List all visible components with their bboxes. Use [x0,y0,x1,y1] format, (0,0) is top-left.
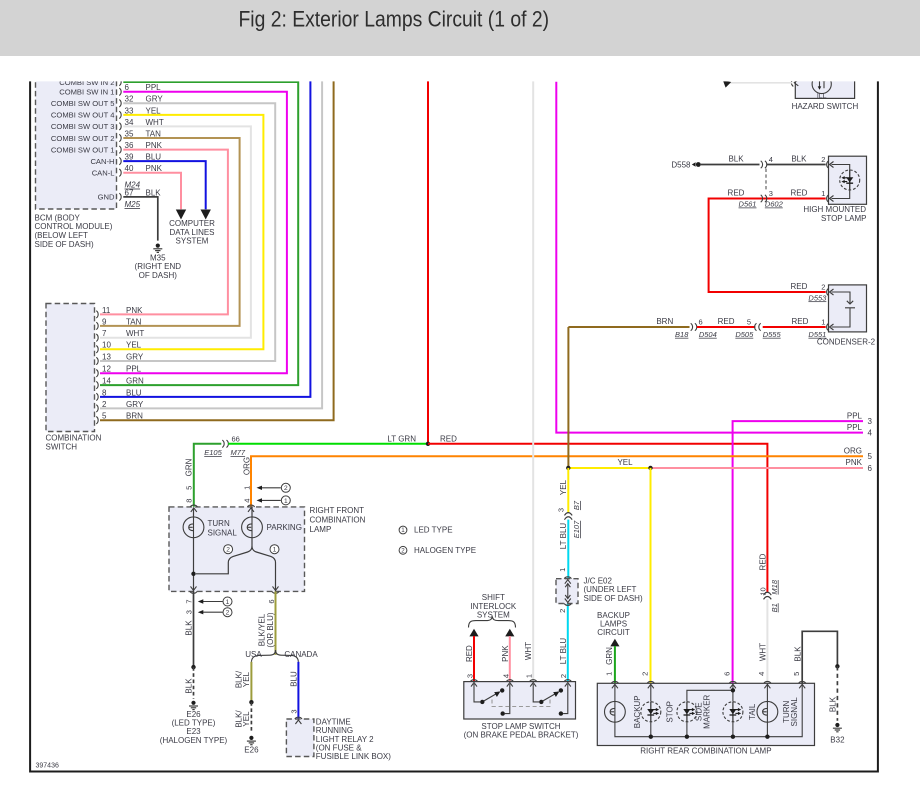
stop lamp switch mechanical link (dashed) [492,700,550,707]
wire WHT from top (off-page) to stop lamp switch pin 1 [532,78,534,682]
hazard switch entry pin [791,79,798,86]
J/C E02 entry pin 1 [564,577,571,584]
junction BLK ground branch [835,664,839,668]
connector D561/D602 pin 4 (BLK row) [761,161,763,168]
turn signal bulb (rear) [757,701,778,722]
svg-text:M24: M24 [125,181,141,190]
svg-text:LT BLU: LT BLU [559,523,568,550]
svg-text:E107: E107 [572,520,581,538]
svg-text:YEL: YEL [242,711,251,727]
legend halogen type [399,546,407,554]
svg-text:1: 1 [401,527,405,534]
svg-text:RIGHT FRONT: RIGHT FRONT [310,506,365,515]
parking bulb [242,517,263,538]
svg-text:RED: RED [465,645,474,662]
wire LT BLU connector E107 to J/C E02 [567,520,569,579]
svg-text:ORG: ORG [844,446,862,455]
svg-text:8: 8 [185,499,194,503]
circled 2 (halogen) branch label [224,545,233,554]
svg-text:CIRCUIT: CIRCUIT [597,628,630,637]
svg-text:SYSTEM: SYSTEM [176,237,209,246]
right rear lamp entry pin 6 [729,681,736,688]
connector B18/D504 pin 6 [691,323,693,330]
shift interlock brace [469,616,516,627]
arrow to shift interlock (RED) [469,629,478,637]
wire WHT BCM to combination switch pin 7 [100,126,251,337]
high mounted stop lamp internal wiring [832,165,850,199]
wire GRN front lamp to connector E105 [194,444,222,507]
arrow to computer data lines system (CAN-L) [176,210,186,220]
svg-text:HALOGEN TYPE: HALOGEN TYPE [414,546,476,555]
svg-text:GRN: GRN [126,377,144,386]
svg-text:SYSTEM: SYSTEM [477,610,510,619]
svg-text:RED: RED [790,282,807,291]
wire BLK dashed to ground B32 [836,666,838,721]
svg-text:RUNNING: RUNNING [316,726,353,735]
svg-text:(RIGHT END: (RIGHT END [135,262,182,271]
lamp exit (parking) pin 6 [272,586,279,593]
wire LT GRN connector M77 to RED junction [228,443,428,445]
svg-text:RED: RED [440,434,457,443]
svg-text:J/C E02: J/C E02 [584,576,613,585]
wire YEL junction down to connector B7 [567,468,569,513]
high mounted stop lamp entry pin 2 [827,161,834,168]
svg-text:STOP: STOP [666,701,675,723]
svg-text:D553: D553 [808,293,827,302]
svg-text:DATA LINES: DATA LINES [169,228,214,237]
wire RED junction to connector M18 [428,444,767,593]
wire GRN right rear lamp pin 1 to backup lamps circuit [614,646,616,683]
stop lamp switch entry pin 1 [530,680,537,687]
svg-text:5: 5 [185,486,194,490]
svg-text:BLK: BLK [185,620,194,636]
svg-text:COMBINATION: COMBINATION [310,515,366,524]
svg-text:HIGH MOUNTED: HIGH MOUNTED [803,205,866,214]
svg-text:PPL: PPL [847,411,863,420]
svg-text:BLK: BLK [728,155,744,164]
tail bulb (LED) [723,702,743,722]
svg-text:3: 3 [185,610,194,614]
arrow off-page (illumination circuit) [723,81,731,88]
svg-text:M77: M77 [231,448,246,457]
svg-text:M25: M25 [125,200,141,209]
wire BLK right rear lamp pin 5 to ground B32 [802,631,837,683]
wire PNK stop lamp switch pin 4 to shift interlock [509,636,511,682]
parking bulb lead [251,508,253,518]
svg-text:2: 2 [821,282,825,291]
svg-text:6: 6 [723,672,732,676]
svg-text:11: 11 [102,306,111,315]
condenser-2 entry pin 1 [827,323,834,330]
svg-text:66: 66 [232,435,240,444]
svg-text:1: 1 [605,672,614,676]
svg-text:MARKER: MARKER [703,694,712,728]
svg-text:4: 4 [868,429,873,438]
wire BLK turn signal to junction [193,591,195,667]
svg-text:SIGNAL: SIGNAL [208,529,238,538]
svg-text:3: 3 [466,674,475,678]
connector D561/D602 housing link (dashed) [765,169,767,192]
svg-text:4: 4 [757,672,766,676]
svg-text:TAIL: TAIL [748,703,757,720]
junction LT GRN / RED [426,442,430,446]
svg-text:(UNDER LEFT: (UNDER LEFT [584,585,637,594]
callout LED pin 7 [201,601,223,603]
svg-text:CONTROL MODULE): CONTROL MODULE) [35,222,113,231]
combination switch pin 7 WHT [96,334,98,341]
svg-text:LT BLU: LT BLU [559,638,568,665]
junction turn signal / parking ground branch [191,572,195,576]
svg-text:TAN: TAN [126,317,142,326]
callout LED pin (parking) [260,499,281,501]
svg-text:1: 1 [273,547,277,554]
svg-text:2: 2 [401,548,405,555]
svg-text:B1: B1 [770,603,779,612]
svg-text:4: 4 [243,499,252,503]
svg-text:14: 14 [102,377,111,386]
svg-text:E26: E26 [244,746,259,755]
svg-text:D558: D558 [671,160,691,169]
svg-text:ILL: ILL [817,93,827,100]
svg-text:GRN: GRN [185,458,194,476]
combination switch pin 14 GRN [96,381,98,388]
combination switch pin 8 BLU [96,393,98,400]
stop lamp switch entry pin 2 [564,680,571,687]
J/C E02 exit pin 2 [564,599,571,606]
wire ORG right edge pin 5 to right front lamp [251,456,863,507]
wire PPL from top (off-page) to right edge pin 4 [556,82,863,433]
svg-text:COMBINATION: COMBINATION [46,434,102,443]
svg-text:COMPUTER: COMPUTER [169,219,215,228]
svg-text:67: 67 [125,188,134,197]
svg-text:WHT: WHT [758,643,767,661]
svg-text:DAYTIME: DAYTIME [316,717,351,726]
svg-text:6: 6 [868,464,873,473]
svg-text:BACKUP: BACKUP [597,611,630,620]
connector B7/E107 pin 3 [564,513,572,516]
svg-text:10: 10 [758,587,767,595]
high mounted stop lamp entry pin 1 [827,195,834,202]
svg-text:COMBI SW IN 1: COMBI SW IN 1 [59,88,114,97]
svg-text:8: 8 [102,388,107,397]
svg-text:D561: D561 [739,200,757,209]
junction BLK ground split [191,665,195,669]
svg-text:STOP LAMP SWITCH: STOP LAMP SWITCH [481,722,560,731]
stop lamp switch entry pin 4 [506,680,513,687]
right rear lamp bulb leads [615,685,768,737]
wire BLU from top (off-page) to combination switch pin 8 [100,78,310,397]
wire YEL BCM to combination switch pin 10 [100,115,263,349]
svg-text:PARKING: PARKING [267,523,302,532]
stop bulb (LED) [641,702,661,722]
svg-text:GND: GND [98,193,115,202]
svg-text:D505: D505 [735,330,754,339]
svg-text:SIDE OF DASH): SIDE OF DASH) [584,594,643,603]
svg-text:BLK: BLK [791,155,807,164]
svg-text:397436: 397436 [36,763,59,770]
right rear lamp entry pin 5 [799,681,806,688]
arrow to shift interlock (PNK) [505,629,514,637]
svg-text:12: 12 [102,365,111,374]
svg-text:WHT: WHT [524,642,533,660]
stop lamp switch box [464,682,576,719]
svg-text:M18: M18 [770,579,779,594]
condenser-2 internal capacitor [832,292,856,327]
header bar [0,0,920,56]
svg-text:COMBI SW OUT 1: COMBI SW OUT 1 [51,145,115,154]
right rear combination lamp box [597,683,814,745]
combination switch pin 2 GRY [96,405,98,412]
svg-text:LED TYPE: LED TYPE [414,526,453,535]
hazard switch illumination bulb ILL [812,74,831,93]
svg-text:E23: E23 [186,727,201,736]
svg-text:4: 4 [501,674,510,678]
svg-text:WHT: WHT [126,329,144,338]
svg-text:SIGNAL: SIGNAL [790,697,799,727]
svg-text:CAN-L: CAN-L [92,169,115,178]
svg-text:BLK: BLK [829,696,838,712]
svg-text:BLU: BLU [290,671,299,687]
svg-text:COMBI SW OUT 4: COMBI SW OUT 4 [51,111,115,120]
svg-text:3: 3 [557,508,566,512]
svg-text:7: 7 [185,599,194,603]
svg-text:PNK: PNK [846,458,863,467]
wire BLK BCM pin 67 to ground M35 [123,197,158,241]
svg-text:BLU: BLU [126,388,142,397]
svg-text:2: 2 [641,672,650,676]
USA / CANADA branch brace [251,650,298,662]
stop lamp switch entry pin 3 [470,680,477,687]
svg-text:BRN: BRN [656,317,673,326]
junction YEL/PNK [648,466,652,470]
side marker bulb (LED) [677,702,697,722]
svg-text:PPL: PPL [847,423,863,432]
wire parking bulb split to turn-signal wire and pin 6 [196,538,252,574]
connector D561/D602 pin 3 (RED row) [761,195,763,202]
svg-text:1: 1 [226,599,230,606]
junction side marker / tail feed [731,688,735,692]
wire RED stop lamp switch pin 3 to shift interlock [473,636,475,682]
svg-text:TURN: TURN [208,519,230,528]
svg-text:LAMP: LAMP [310,525,332,534]
wire RED from top (off-page) to junction with LT GRN [427,78,429,444]
svg-text:Fig 2: Exterior Lamps Circuit: Fig 2: Exterior Lamps Circuit (1 of 2) [239,7,550,32]
svg-text:SWITCH: SWITCH [46,442,78,451]
lamp entry pin (parking) 1/4 [247,505,254,512]
svg-text:B18: B18 [675,330,689,339]
lamp exit (turn signal ground) pins 7/3 [190,586,197,593]
combination switch pin 5 BRN [96,417,98,424]
svg-text:D504: D504 [699,330,717,339]
wire YEL junction to right rear lamp pin 2 [650,468,652,683]
svg-text:YEL: YEL [126,341,142,350]
svg-text:COMBI SW OUT 2: COMBI SW OUT 2 [51,134,115,143]
svg-text:1: 1 [525,674,534,678]
svg-text:GRY: GRY [126,400,144,409]
callout halogen pin (parking) [260,487,281,489]
svg-text:BLK: BLK [794,646,803,662]
svg-text:GRN: GRN [605,647,614,665]
wire GRY from top (off-page) to combination switch pin 2 [100,78,322,408]
svg-text:D551: D551 [808,330,826,339]
wire RED connector D555 to condenser pin 1 [763,326,826,328]
BCM connector box [36,66,117,209]
svg-text:(ON BRAKE PEDAL BRACKET): (ON BRAKE PEDAL BRACKET) [464,731,579,740]
svg-text:RIGHT REAR COMBINATION LAMP: RIGHT REAR COMBINATION LAMP [640,747,771,756]
wire BLU CAN-H to computer data lines system [123,161,205,209]
svg-text:5: 5 [868,452,873,461]
ground E26 [247,736,256,745]
svg-text:BLK: BLK [185,678,194,694]
svg-text:3: 3 [289,709,298,713]
svg-text:1: 1 [558,568,567,572]
svg-text:YEL: YEL [242,671,251,687]
svg-text:USA: USA [245,650,262,659]
callout halogen pin 3 [201,611,223,613]
svg-text:(LED TYPE): (LED TYPE) [172,719,216,728]
right rear lamp entry pin 2 [647,681,654,688]
wire BRN to connector D504 [568,326,689,328]
svg-text:PPL: PPL [126,365,142,374]
svg-text:3: 3 [868,417,873,426]
svg-text:LAMPS: LAMPS [600,620,627,629]
svg-text:RED: RED [758,553,767,570]
wire BLU CANADA branch to DRL relay 2 [297,662,299,719]
svg-text:1: 1 [821,317,825,326]
stop lamp switch internal contacts (right pole) [533,684,568,714]
wire PPL BCM to combination switch pin 12 [100,92,287,373]
high mounted stop lamp box [829,156,867,204]
svg-text:COMBI SW OUT 3: COMBI SW OUT 3 [51,122,115,131]
hazard switch box [795,64,854,98]
svg-text:1: 1 [243,486,252,490]
connector E105/M77 pin 66 [222,440,224,447]
wire TAN BCM to combination switch pin 9 [100,138,240,326]
connector D505/D555 pin 5 [755,323,757,330]
wire YEL between junctions [568,467,650,469]
wire BLK dashed to ground E26/E23 [193,667,195,699]
svg-text:BACKUP: BACKUP [633,695,642,728]
svg-text:YEL: YEL [617,458,633,467]
wire PNK right edge pin 6 to YEL junction [651,467,864,469]
svg-text:D602: D602 [765,200,784,209]
svg-text:B32: B32 [830,736,845,745]
svg-text:PNK: PNK [501,645,510,662]
svg-text:2: 2 [284,485,288,492]
turn signal bulb [183,517,204,538]
svg-text:2: 2 [821,155,825,164]
arrow to backup lamps circuit [610,639,619,647]
right rear lamp entry pin 1 [611,681,618,688]
svg-text:5: 5 [102,412,107,421]
svg-text:4: 4 [769,155,773,164]
svg-text:2: 2 [226,547,230,554]
combination switch pin 10 YEL [96,346,98,353]
svg-text:(BELOW LEFT: (BELOW LEFT [35,231,88,240]
svg-text:BCM (BODY: BCM (BODY [35,213,81,222]
combination switch pin 9 TAN [96,322,98,329]
svg-text:2: 2 [558,609,567,613]
turn signal bulb lead [193,508,195,518]
side marker feed wire to pin 6 node [687,690,733,701]
svg-text:10: 10 [102,341,111,350]
wire BRN from top (off-page) to combination switch pin 5 [100,78,334,420]
svg-text:RED: RED [791,317,808,326]
wire WHT connector B1 to right rear lamp pin 4 [766,599,768,683]
svg-text:E26: E26 [186,710,201,719]
junction USA branch [249,700,253,704]
wire BLK D558 to connector D561 [700,164,760,166]
arrow to computer data lines system (CAN-H) [201,210,211,220]
wire PPL right edge pin 3 to right rear lamp pin 6 [733,421,863,683]
svg-text:D555: D555 [763,330,782,339]
condenser-2 box [829,285,867,332]
svg-text:(HALOGEN TYPE): (HALOGEN TYPE) [160,736,228,745]
ground E26 / E23 [189,701,198,710]
junction YEL/BRN [566,466,570,470]
wire LT BLU J/C E02 to stop lamp switch pin 2 [567,604,569,682]
combination switch pin 11 PNK [96,311,98,318]
svg-text:CANADA: CANADA [284,650,318,659]
svg-text:YEL: YEL [559,479,568,495]
ground M35 [153,244,162,253]
wire BLK/YEL dashed to ground E26 [250,702,252,732]
J/C E02 internal bus arrow [565,584,570,599]
svg-text:E105: E105 [204,448,222,457]
svg-text:CONDENSER-2: CONDENSER-2 [817,338,876,347]
svg-text:(OR BLU): (OR BLU) [266,612,275,647]
junction connector J/C E02 box [556,579,578,604]
bus junctions [649,735,653,739]
svg-text:2: 2 [102,400,107,409]
svg-text:LT GRN: LT GRN [387,434,416,443]
wire BLK/YEL parking to USA/CANADA split [275,591,277,654]
legend LED type [399,526,407,534]
wire BLK/YEL USA branch [250,662,252,701]
svg-text:B7: B7 [572,500,581,510]
wire BRN condenser branch: vertical to YEL junction [567,327,569,468]
wire GRN BCM to combination switch pin 14 [100,82,298,385]
wire PNK BCM to combination switch pin 11 [100,150,228,315]
svg-text:(ON FUSE &: (ON FUSE & [316,744,362,753]
svg-text:2: 2 [559,674,568,678]
combination switch box [46,304,95,432]
svg-text:1: 1 [284,498,288,505]
svg-text:RED: RED [790,189,807,198]
svg-text:HAZARD SWITCH: HAZARD SWITCH [792,102,859,111]
connector B1/M18 pin 10 [764,592,772,595]
svg-text:FUSIBLE LINK BOX): FUSIBLE LINK BOX) [316,752,391,761]
svg-text:RED: RED [718,317,735,326]
svg-text:9: 9 [102,317,107,326]
condenser-2 entry pin 2 [827,288,834,295]
daytime running light relay 2 box [286,719,314,757]
wire BLK connector to high mounted stop lamp pin 2 [767,164,826,166]
wire WHT hazard switch illumination (off-page) [730,82,793,84]
high mounted stop lamp LED [840,170,860,190]
wire PNK CAN-L to computer data lines system [123,173,181,210]
svg-text:13: 13 [102,352,111,361]
svg-text:RED: RED [728,189,745,198]
right front combination lamp box [169,507,305,592]
wire turn signal bulb to box bottom [193,538,195,592]
svg-text:SIDE OF DASH): SIDE OF DASH) [35,240,94,249]
svg-text:ORG: ORG [242,457,251,475]
svg-text:1: 1 [821,189,825,198]
svg-text:COMBI SW OUT 5: COMBI SW OUT 5 [51,99,115,108]
svg-text:5: 5 [747,317,751,326]
svg-text:STOP LAMP: STOP LAMP [821,214,867,223]
